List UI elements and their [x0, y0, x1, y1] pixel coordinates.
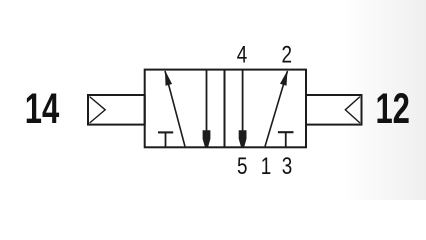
arrowhead down on left vertical line: [203, 130, 211, 146]
right box flow path 4->5 (vertical, arrow down): [242, 70, 244, 146]
svg-text:12: 12: [375, 85, 410, 133]
svg-text:3: 3: [282, 153, 293, 180]
svg-text:4: 4: [237, 42, 248, 69]
svg-text:1: 1: [261, 153, 272, 180]
svg-text:2: 2: [282, 42, 293, 69]
arrowhead down on right vertical line: [239, 130, 247, 146]
arrowhead up on left diagonal: [165, 70, 172, 85]
right box flow path 1->2 (diagonal, arrow up): [265, 71, 288, 147]
pilot actuator box 12 (right): [306, 95, 362, 125]
pilot actuator box 14 (left): [88, 95, 145, 125]
right T stem: [285, 132, 287, 146]
valve body outline (5/2 valve, two position boxes): [145, 70, 306, 148]
divider between position boxes: [224, 70, 226, 148]
arrowhead up on right diagonal: [280, 70, 288, 85]
left box flow path 1->4 (diagonal, arrow up): [165, 71, 185, 147]
left T stem: [165, 132, 167, 146]
svg-text:5: 5: [237, 153, 248, 180]
svg-text:14: 14: [25, 85, 60, 133]
pilot triangle 12: [345, 97, 360, 123]
right box blocked port T: [278, 131, 294, 133]
pilot triangle 14: [90, 97, 106, 123]
left box blocked port T: [158, 131, 173, 133]
left box flow path 2->3 (vertical, arrow down): [206, 70, 208, 146]
